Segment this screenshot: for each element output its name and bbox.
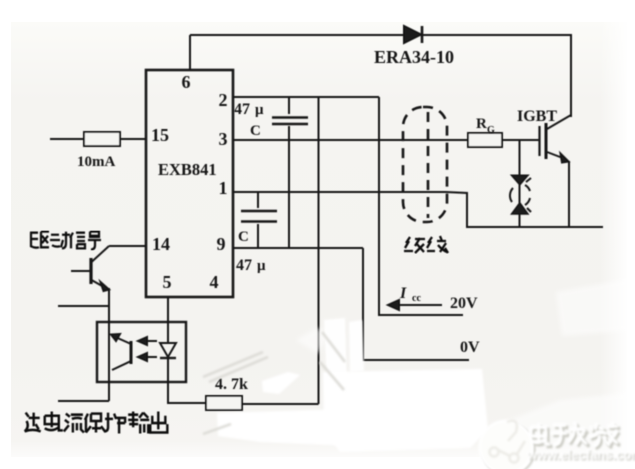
svg-text:cc: cc <box>412 293 421 304</box>
svg-text:ERA34-10: ERA34-10 <box>374 47 454 67</box>
svg-text:5: 5 <box>163 272 172 292</box>
svg-text:4: 4 <box>210 272 219 292</box>
svg-text:G: G <box>487 125 495 136</box>
svg-text:9: 9 <box>217 234 226 254</box>
svg-text:www.elecfans.com: www.elecfans.com <box>526 447 635 462</box>
svg-text:14: 14 <box>152 234 170 254</box>
svg-text:C: C <box>238 229 249 245</box>
svg-text:6: 6 <box>182 72 191 92</box>
svg-text:0V: 0V <box>460 339 480 356</box>
svg-text:EXB841: EXB841 <box>158 160 217 179</box>
svg-text:1: 1 <box>219 178 228 198</box>
svg-text:47: 47 <box>234 101 250 118</box>
svg-text:μ: μ <box>257 258 266 274</box>
svg-text:15: 15 <box>151 125 169 145</box>
svg-text:2: 2 <box>219 90 228 110</box>
svg-text:R: R <box>476 116 487 132</box>
svg-text:μ: μ <box>255 102 264 118</box>
svg-text:C: C <box>250 123 261 139</box>
svg-text:3: 3 <box>219 129 228 149</box>
svg-text:10mA: 10mA <box>77 154 115 170</box>
svg-text:20V: 20V <box>450 295 478 312</box>
svg-text:IGBT: IGBT <box>517 108 557 125</box>
svg-text:I: I <box>399 285 407 302</box>
svg-text:47: 47 <box>236 257 252 274</box>
